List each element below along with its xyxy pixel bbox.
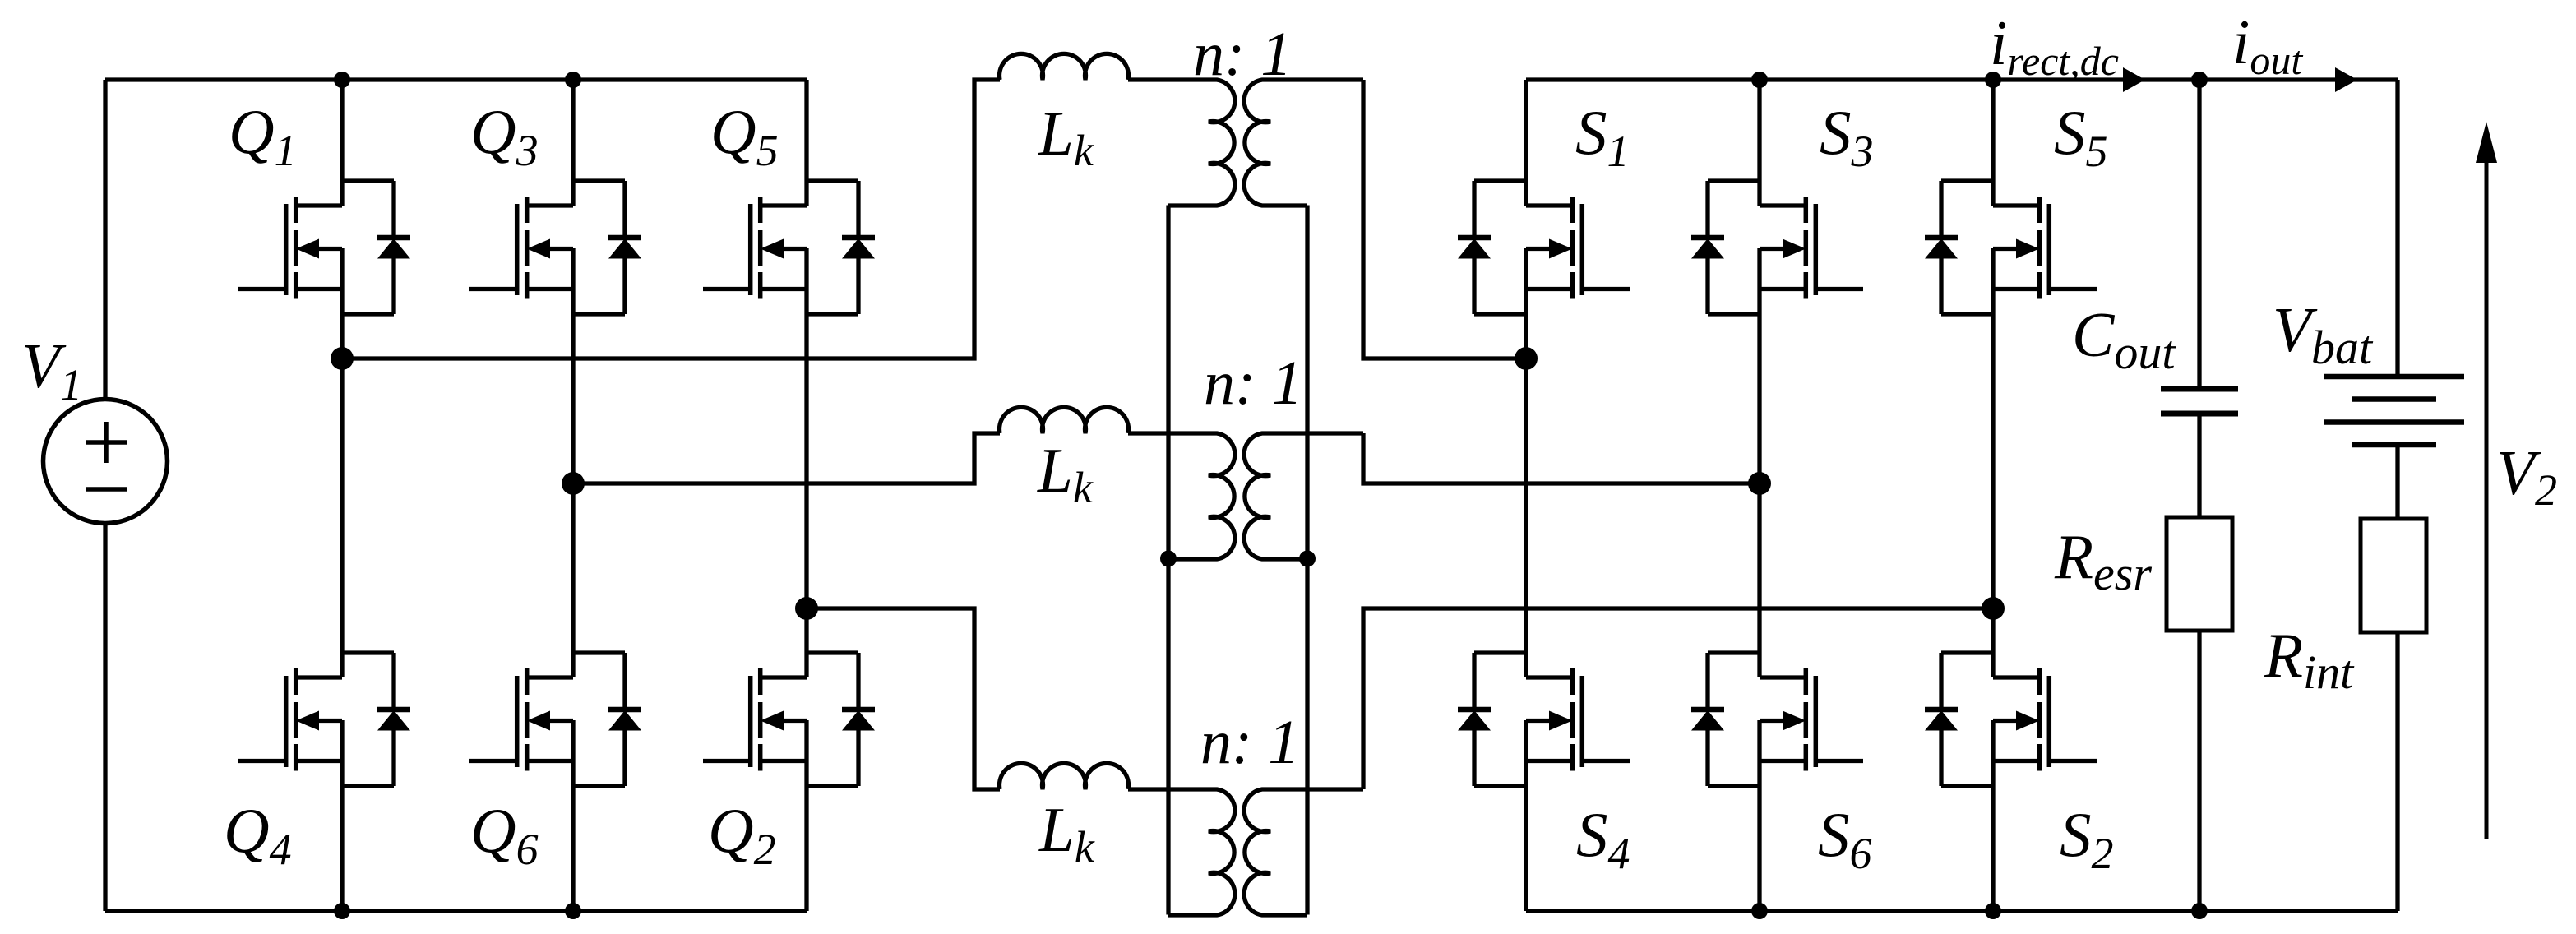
resistor Resr bbox=[2167, 517, 2232, 631]
wire Cout to Resr bbox=[2197, 414, 2201, 517]
transistor Q4 bbox=[238, 653, 410, 786]
node rectifier bottom rail / Resr branch bbox=[2191, 903, 2208, 919]
inductor Lk3 bbox=[1000, 763, 1129, 789]
node top rail / leg A junction bbox=[334, 72, 350, 88]
node rectifier bottom rail / leg B bbox=[1751, 903, 1768, 919]
wire leg A of rectifier (S1/S4) bbox=[1524, 80, 1528, 911]
transformer T3 (n:1) bbox=[1128, 789, 1363, 915]
svg-text:n: 1: n: 1 bbox=[1200, 708, 1299, 777]
node rectifier phase A (S1-S4 midpoint) bbox=[1515, 347, 1538, 370]
node primary bus / T2 junction bbox=[1160, 551, 1177, 567]
node rectifier bottom rail / leg C bbox=[1985, 903, 2001, 919]
transistor Q3 bbox=[469, 181, 641, 314]
wire phase A to inductor Lk1 bbox=[342, 80, 1000, 358]
transistor S5 bbox=[1925, 181, 2097, 314]
wire phase C to inductor Lk3 bbox=[807, 608, 1000, 789]
node bottom rail / leg B junction bbox=[565, 903, 581, 919]
wire transformer T3 secondary to phase C of rectifier bbox=[1363, 608, 1993, 789]
transistor S2 bbox=[1925, 653, 2097, 786]
svg-text:n: 1: n: 1 bbox=[1204, 349, 1302, 418]
wire bottom rail of rectifier bbox=[1526, 909, 2398, 913]
wire V1 top lead bbox=[103, 80, 107, 400]
node rectifier phase B (S3-S6 midpoint) bbox=[1748, 472, 1771, 495]
wire transformer T2 secondary to phase B of rectifier bbox=[1363, 433, 1760, 483]
wire Rint to bottom rail bbox=[2395, 632, 2399, 911]
wire V1 bottom lead bbox=[103, 524, 107, 912]
capacitor Cout bbox=[2161, 389, 2238, 414]
transistor Q2 bbox=[703, 653, 875, 786]
node phase C (Q5-Q2 midpoint) bbox=[795, 597, 818, 620]
arrow V2 (output voltage) bbox=[2476, 122, 2497, 839]
wire primary neutral bus bbox=[1166, 206, 1170, 915]
transistor S3 bbox=[1691, 181, 1863, 314]
node bottom rail / leg A junction bbox=[334, 903, 350, 919]
transistor S4 bbox=[1458, 653, 1630, 786]
wire leg B of rectifier (S3/S6) bbox=[1757, 80, 1761, 911]
transistor S6 bbox=[1691, 653, 1863, 786]
node phase A (Q1-Q4 midpoint) bbox=[331, 347, 354, 370]
wire leg C of rectifier (S5/S2) bbox=[1991, 80, 1995, 911]
transistor Q1 bbox=[238, 181, 410, 314]
transistor Q6 bbox=[469, 653, 641, 786]
transistor Q5 bbox=[703, 181, 875, 314]
transformer T2 (n:1) bbox=[1128, 433, 1363, 559]
arrow i_out bbox=[2335, 67, 2357, 92]
wire Vbat to Rint bbox=[2395, 445, 2399, 519]
wire bottom rail of primary bridge bbox=[105, 909, 807, 913]
node top rail / leg B junction bbox=[565, 72, 581, 88]
wire transformer T1 secondary to phase A of rectifier bbox=[1363, 80, 1526, 358]
node rectifier top rail / leg C bbox=[1985, 72, 2001, 88]
arrow i_rect,dc bbox=[2123, 67, 2145, 92]
wire leg B of primary bridge (Q3/Q6) bbox=[571, 80, 575, 911]
wire Resr to bottom rail bbox=[2197, 631, 2201, 911]
wire leg C of primary bridge (Q5/Q2) bbox=[804, 80, 808, 911]
node secondary bus / T2 junction bbox=[1299, 551, 1316, 567]
transformer T1 (n:1) bbox=[1128, 80, 1363, 206]
node rectifier top rail / leg B bbox=[1751, 72, 1768, 88]
wire secondary neutral bus bbox=[1305, 206, 1309, 915]
voltage source V1 bbox=[44, 400, 168, 524]
node phase B (Q3-Q6 midpoint) bbox=[562, 472, 585, 495]
wire top rail of primary bridge bbox=[105, 77, 807, 81]
wire Vbat branch upper bbox=[2395, 80, 2399, 377]
resistor Rint bbox=[2361, 519, 2426, 632]
inductor Lk1 bbox=[1000, 53, 1129, 80]
wire leg A of primary bridge (Q1/Q4) bbox=[340, 80, 344, 911]
svg-text:n: 1: n: 1 bbox=[1193, 20, 1292, 89]
battery Vbat bbox=[2324, 377, 2464, 445]
transistor S1 bbox=[1458, 181, 1630, 314]
wire Cout branch upper bbox=[2197, 80, 2201, 389]
wire phase B to inductor Lk2 bbox=[573, 433, 1000, 483]
node rectifier phase C (S5-S2 midpoint) bbox=[1982, 597, 2005, 620]
node rectifier top rail / Cout branch bbox=[2191, 72, 2208, 88]
wire top rail of rectifier bbox=[1526, 77, 2398, 81]
inductor Lk2 bbox=[1000, 407, 1129, 433]
